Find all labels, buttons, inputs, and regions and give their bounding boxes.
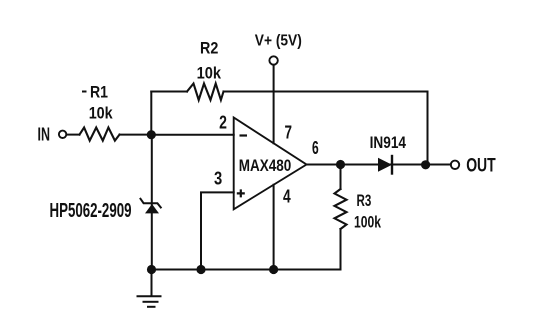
terminal OUT — [451, 161, 459, 169]
svg-text:R3: R3 — [357, 191, 372, 210]
svg-text:IN: IN — [38, 125, 51, 145]
diode D2 cathode bar (zener) — [141, 199, 161, 208]
wire pin 3 — [201, 192, 234, 269]
svg-text:HP5062-2909: HP5062-2909 — [50, 200, 132, 222]
wire pin 4 — [273, 185, 275, 270]
ground symbol — [137, 296, 162, 307]
svg-text:3: 3 — [214, 168, 222, 188]
wire output pin 6 to OUT — [307, 164, 451, 166]
wire ground stem — [151, 270, 153, 297]
op-amp minus sign — [240, 134, 248, 136]
terminal IN — [59, 131, 66, 138]
wire R2 right to top-right corner — [224, 91, 428, 93]
wire R3 branch — [340, 165, 342, 190]
wire zener branch — [151, 135, 153, 270]
op-amp U1 MAX480 triangle — [234, 118, 307, 210]
svg-text:V+ (5V): V+ (5V) — [255, 33, 302, 50]
svg-text:2: 2 — [219, 113, 227, 133]
dash before R1 label — [82, 91, 87, 93]
diode D1 IN914 triangle — [378, 158, 392, 172]
svg-text:MAX480: MAX480 — [239, 156, 291, 175]
op-amp plus sign — [237, 189, 245, 197]
svg-text:10k: 10k — [197, 63, 222, 82]
wire bottom rail — [152, 269, 341, 271]
wire node A up to R2 — [150, 92, 152, 135]
wire IN to R1 — [67, 134, 80, 136]
wire feedback vertical to output node — [427, 92, 429, 165]
wire R2 left — [151, 91, 187, 93]
wire node A to op-amp pin 2 — [151, 134, 233, 136]
node output junction dot (R3 tap) — [336, 160, 345, 169]
svg-text:6: 6 — [312, 138, 319, 158]
wire R3 bottom — [340, 229, 342, 270]
node ground-rail junction dot (pin 3) — [196, 265, 205, 274]
node ground-rail junction dot (zener) — [147, 265, 156, 274]
wire V+ to pin 7 — [273, 65, 275, 143]
svg-text:R1: R1 — [90, 82, 108, 101]
svg-text:OUT: OUT — [466, 155, 496, 177]
node A junction dot — [147, 130, 156, 139]
wire R1 to node A — [120, 134, 152, 136]
node OUT junction dot — [421, 160, 430, 169]
svg-text:IN914: IN914 — [370, 133, 407, 152]
svg-text:4: 4 — [283, 187, 291, 207]
svg-text:7: 7 — [285, 122, 293, 142]
zener diode HP5062-2909 triangle — [145, 204, 159, 213]
svg-text:10k: 10k — [89, 103, 113, 122]
svg-text:100k: 100k — [354, 213, 381, 232]
terminal V+ — [269, 56, 277, 64]
svg-text:R2: R2 — [200, 39, 218, 58]
resistor R2 — [187, 84, 224, 101]
diode D1 cathode bar — [391, 156, 393, 174]
resistor R3 — [335, 189, 347, 229]
node ground-rail junction dot (pin 4) — [269, 265, 278, 274]
resistor R1 — [80, 128, 120, 141]
